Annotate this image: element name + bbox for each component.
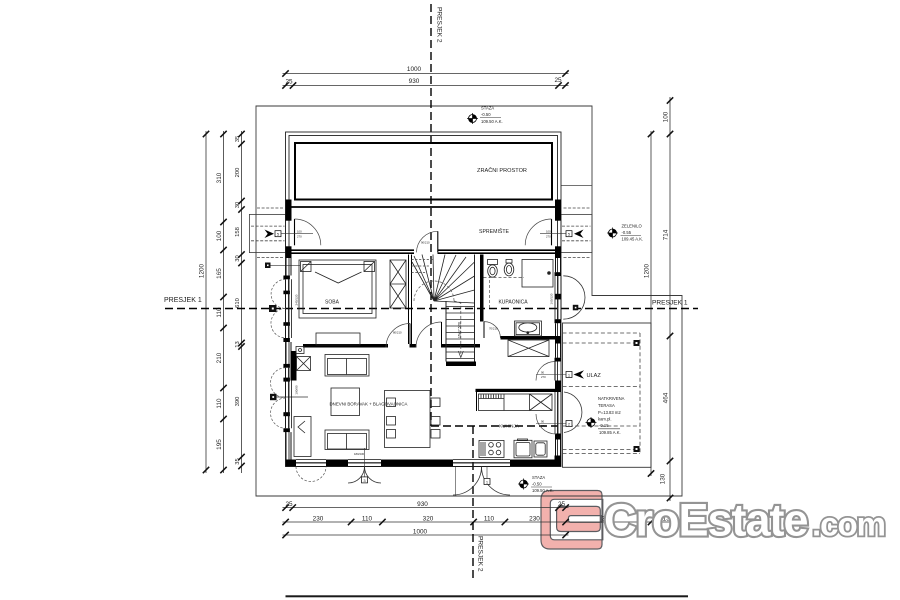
hidden treads dashed upper-left xyxy=(412,260,435,273)
svg-text:ZELENILO: ZELENILO xyxy=(622,224,643,229)
svg-text:.com: .com xyxy=(812,506,885,543)
BUILDING xyxy=(271,132,585,495)
bottom wall window swing arc xyxy=(296,467,326,482)
svg-text:270: 270 xyxy=(546,234,551,238)
left window axis marker xyxy=(270,394,277,400)
french door arcs kitchen/dining xyxy=(453,467,482,496)
node A left P1 marker xyxy=(269,305,277,312)
bottom dim line 25/930/25 xyxy=(283,507,569,509)
winder walk arc xyxy=(414,281,454,301)
canopy left porch xyxy=(249,214,285,252)
wardrobe xyxy=(390,260,406,308)
wc xyxy=(488,260,498,265)
sink xyxy=(514,440,532,458)
left wall mid jamb blocks xyxy=(283,291,290,295)
svg-text:270: 270 xyxy=(541,375,546,379)
svg-text:390: 390 xyxy=(235,397,241,407)
wall zracni/spremiste xyxy=(292,206,556,208)
svg-text:100: 100 xyxy=(216,230,223,241)
bottom wall tag 1b xyxy=(484,479,490,485)
LABELS xyxy=(325,167,528,429)
BOTTOM BAR xyxy=(286,595,689,597)
wall spremiste/middle xyxy=(292,250,556,253)
pillows xyxy=(301,262,312,272)
bottom chain 230/110/320/110/230/300/130 xyxy=(283,521,691,523)
window glazing lines left wall xyxy=(286,276,562,467)
left chain 310/100/165/110/210/110/195 xyxy=(223,131,225,473)
SITE xyxy=(249,106,682,496)
sofa 2 xyxy=(325,430,369,450)
logo outer C xyxy=(541,491,603,550)
left casement window swing arcs (dashed) xyxy=(271,279,286,428)
svg-text:25: 25 xyxy=(285,79,293,86)
soba window axis marker xyxy=(265,263,271,269)
svg-text:1200: 1200 xyxy=(199,263,206,278)
L sofa xyxy=(294,417,311,457)
svg-text:100: 100 xyxy=(297,230,302,234)
door tag 1 xyxy=(566,372,572,378)
chimney shaft xyxy=(291,351,297,381)
upper envelope thin double lines (zracni prostor level) xyxy=(286,132,562,467)
svg-text:35: 35 xyxy=(235,136,241,142)
kitchen left edge line xyxy=(476,392,478,411)
kitchen/hall wall xyxy=(476,389,556,392)
svg-text:NATKRIVENA: NATKRIVENA xyxy=(598,396,625,401)
canopy dashed lines right xyxy=(564,207,591,209)
right chain 100/714/464/130 xyxy=(669,97,671,501)
svg-text:160/120: 160/120 xyxy=(550,293,554,304)
chairs xyxy=(387,417,396,426)
svg-text:CroEstate: CroEstate xyxy=(604,495,808,546)
lower treads xyxy=(446,307,475,359)
svg-text:195: 195 xyxy=(216,439,223,450)
svg-text:ULAZ: ULAZ xyxy=(587,373,602,379)
spremiste door xyxy=(437,231,439,252)
ROOMS xyxy=(291,255,554,458)
bottom wall window glazing xyxy=(296,460,326,467)
svg-text:464: 464 xyxy=(663,392,670,403)
tv xyxy=(296,347,304,354)
top dimension line 930 with 25 ends xyxy=(283,85,569,87)
left dim line 1200 xyxy=(205,131,207,473)
svg-text:25: 25 xyxy=(285,501,293,508)
svg-text:1200: 1200 xyxy=(644,263,651,278)
svg-text:270: 270 xyxy=(541,424,546,428)
bathroom fixtures xyxy=(484,260,554,337)
wall soba/stairs xyxy=(409,255,412,345)
svg-text:110: 110 xyxy=(484,516,495,523)
svg-text:180/230: 180/230 xyxy=(354,452,365,456)
svg-text:90: 90 xyxy=(541,420,545,424)
bench at bed foot xyxy=(316,333,360,345)
svg-text:SOBA: SOBA xyxy=(325,300,340,306)
sofa 1 xyxy=(325,355,369,377)
kitchen door arc xyxy=(536,414,556,434)
level marker terasa xyxy=(586,417,597,428)
svg-text:610: 610 xyxy=(235,298,241,308)
svg-text:100: 100 xyxy=(663,111,670,122)
left chain 35/200/30/158/30/610/13/390/35 xyxy=(241,131,243,473)
svg-text:ZRAČNI PROSTOR: ZRAČNI PROSTOR xyxy=(477,167,527,174)
section line PRESJEK 1 xyxy=(165,308,698,310)
svg-text:130: 130 xyxy=(660,473,667,484)
SECTIONS xyxy=(164,4,698,581)
left entry door xyxy=(295,219,321,245)
svg-text:STAZA: STAZA xyxy=(481,106,494,111)
right dim line 1200 xyxy=(650,131,652,476)
svg-text:158: 158 xyxy=(235,227,241,237)
left wall black segments xyxy=(283,207,561,467)
bottom wall tag 3 xyxy=(362,477,368,483)
svg-text:30: 30 xyxy=(235,255,241,261)
svg-text:714: 714 xyxy=(663,229,670,240)
svg-text:13: 13 xyxy=(235,341,241,347)
svg-text:230: 230 xyxy=(529,516,540,523)
svg-text:109.50 A.K.: 109.50 A.K. xyxy=(481,119,503,124)
svg-text:PRESJEK 1: PRESJEK 1 xyxy=(164,297,202,304)
bathroom window swing arc right xyxy=(563,276,585,319)
svg-text:25: 25 xyxy=(554,77,562,84)
svg-text:PRESJEK 2: PRESJEK 2 xyxy=(477,536,484,572)
svg-text:25: 25 xyxy=(558,501,566,508)
svg-text:110: 110 xyxy=(216,398,223,409)
svg-text:P=13.83 m2: P=13.83 m2 xyxy=(598,410,621,415)
door tag 2 xyxy=(566,421,572,427)
bottom wall black segments xyxy=(286,460,297,467)
stairs bottom wall xyxy=(446,362,476,367)
winder radial treads fanning to top wall xyxy=(412,255,475,304)
zracni prostor thick rect xyxy=(295,143,552,200)
canopy dashed lines left xyxy=(251,208,591,257)
svg-text:-0.15: -0.15 xyxy=(599,423,609,428)
dining table xyxy=(385,391,431,448)
svg-text:1000: 1000 xyxy=(413,529,428,536)
svg-text:165: 165 xyxy=(216,268,223,279)
svg-text:DNEVNI BORAVAK + BLAGOVAONICA: DNEVNI BORAVAK + BLAGOVAONICA xyxy=(330,402,408,407)
wall stairs/bath xyxy=(480,255,484,322)
svg-text:110: 110 xyxy=(362,516,373,523)
svg-text:200: 200 xyxy=(235,168,241,178)
bathroom door xyxy=(484,322,500,338)
canopy right porch xyxy=(561,214,592,252)
svg-text:30: 30 xyxy=(235,202,241,208)
svg-text:KUPAONICA: KUPAONICA xyxy=(498,300,528,306)
coffee table xyxy=(331,388,360,416)
svg-text:109.50 A.K.: 109.50 A.K. xyxy=(532,488,554,493)
svg-text:930: 930 xyxy=(417,501,428,508)
svg-text:PRESJEK 1: PRESJEK 1 xyxy=(652,300,688,307)
wall soba/living xyxy=(303,255,555,393)
svg-text:310: 310 xyxy=(216,172,223,183)
top dimension line 1000 xyxy=(283,73,569,75)
TERRACE xyxy=(563,323,652,467)
right wall black segments xyxy=(555,207,561,221)
level marker ZELENILO xyxy=(607,228,618,239)
right wall glazing: bath window + terrace doors xyxy=(555,276,561,319)
node B right P1 marker xyxy=(573,305,579,311)
ULAZ arrow xyxy=(574,370,585,378)
soba door xyxy=(386,324,410,348)
level marker STAZA top xyxy=(467,113,478,124)
svg-text:100: 100 xyxy=(546,230,551,234)
svg-text:16x17,5/28: 16x17,5/28 xyxy=(458,322,462,338)
svg-text:930: 930 xyxy=(409,78,420,85)
stove xyxy=(479,441,504,458)
svg-text:90: 90 xyxy=(541,371,545,375)
LOGO_PINK xyxy=(541,491,603,550)
bath bottom wall xyxy=(501,336,556,340)
hall closet xyxy=(508,340,549,357)
svg-text:KUHINJA: KUHINJA xyxy=(499,424,520,429)
fireplace xyxy=(297,357,311,371)
LOGO_TEXT xyxy=(604,495,885,546)
svg-text:35: 35 xyxy=(235,458,241,464)
svg-text:90/210: 90/210 xyxy=(421,241,430,245)
terrace posts xyxy=(634,340,640,346)
svg-text:SPREMIŠTE: SPREMIŠTE xyxy=(479,228,510,235)
bottom dim line 1000 xyxy=(283,534,569,536)
svg-text:-0.50: -0.50 xyxy=(532,482,542,487)
stair walk line dashed with arrow xyxy=(454,301,461,356)
kitchen counters xyxy=(479,394,553,458)
svg-text:STAZA: STAZA xyxy=(532,475,545,480)
door tag 5 right xyxy=(574,230,584,239)
svg-text:kam.pl.: kam.pl. xyxy=(598,417,612,422)
wall double lines between jamb blocks xyxy=(286,258,561,460)
svg-text:240/120: 240/120 xyxy=(295,294,299,305)
living room furniture xyxy=(291,347,441,457)
logo inner C xyxy=(557,506,601,531)
french door arcs living xyxy=(348,467,510,496)
svg-text:-0.50: -0.50 xyxy=(481,112,491,117)
ULAZ door arc xyxy=(536,362,555,381)
svg-text:210: 210 xyxy=(216,352,223,363)
upper floor edge dashed xyxy=(489,275,491,309)
svg-text:270: 270 xyxy=(297,234,302,238)
small counter xyxy=(534,441,547,457)
vanity sink xyxy=(515,321,542,336)
shower xyxy=(522,260,553,288)
stairs U1 xyxy=(412,255,475,362)
right entry door xyxy=(525,219,551,245)
svg-text:70/210: 70/210 xyxy=(489,327,498,331)
bidet xyxy=(506,260,512,264)
tiny window texts xyxy=(295,241,554,395)
svg-text:109.85 A.K.: 109.85 A.K. xyxy=(599,430,621,435)
svg-text:320: 320 xyxy=(423,516,434,523)
svg-text:109.45 A.K.: 109.45 A.K. xyxy=(622,237,644,242)
svg-text:190/90: 190/90 xyxy=(295,385,299,395)
level marker STAZA bottom xyxy=(518,479,529,490)
svg-text:230: 230 xyxy=(313,516,324,523)
bed xyxy=(299,260,376,345)
site boundary xyxy=(256,106,682,496)
door tag 5 left xyxy=(265,230,275,239)
svg-text:TERASA: TERASA xyxy=(598,403,615,408)
svg-text:PRESJEK 2: PRESJEK 2 xyxy=(436,7,443,43)
svg-text:1000: 1000 xyxy=(407,66,422,73)
blanket fold xyxy=(315,272,362,283)
svg-text:-0.55: -0.55 xyxy=(622,230,632,235)
section line PRESJEK 2 (with jog) xyxy=(430,4,432,426)
terrace hall-door swing arc right xyxy=(564,392,582,433)
hall-living door xyxy=(416,322,442,348)
svg-text:80/210: 80/210 xyxy=(393,331,402,335)
wall hall/living xyxy=(412,344,417,348)
